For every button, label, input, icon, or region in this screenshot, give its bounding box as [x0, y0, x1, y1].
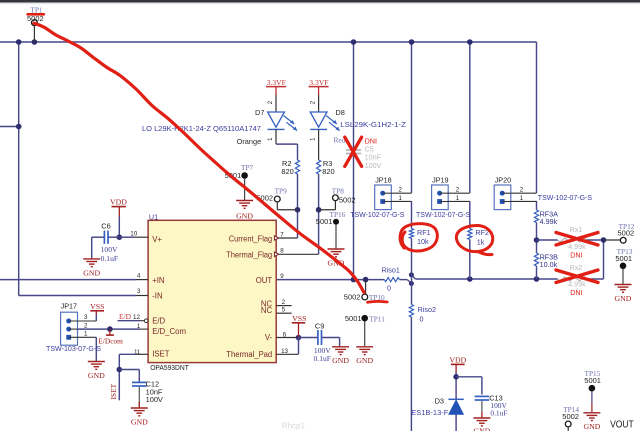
- annotation red X over C5: [345, 137, 362, 166]
- resistor R3 820: [317, 160, 321, 174]
- svg-text:Current_Flag: Current_Flag: [229, 234, 273, 243]
- test point TP7 5001 grounded: [241, 172, 248, 179]
- wire JP17 pin2 to U1 E/D_Com pin1: [69, 328, 78, 330]
- wire stub left edge y=126.5: [0, 126, 19, 128]
- wire JP18 pin1 down through RF1 Riso2 to bottom edge: [411, 201, 413, 228]
- op-amp U1 OPA593DNT body: [148, 220, 276, 362]
- svg-text:100V: 100V: [146, 395, 163, 404]
- resistor Rx1 DNI grey with leads: [537, 239, 558, 241]
- node dot RF2 bottom: [467, 276, 473, 282]
- wire to C12: [119, 369, 139, 371]
- svg-text:E/D_Com: E/D_Com: [152, 327, 186, 336]
- svg-text:5002: 5002: [344, 293, 361, 302]
- wire R2 to Current_Flag pin7: [297, 174, 299, 238]
- wire JP17 pin3 to VSS: [69, 320, 97, 322]
- resistor Rx2 DNI grey with leads: [558, 277, 587, 281]
- svg-text:TSW-103-07-G-S: TSW-103-07-G-S: [46, 344, 101, 353]
- svg-text:2: 2: [399, 187, 403, 194]
- U1 flag output arrows: [274, 236, 278, 240]
- svg-text:ISET: ISET: [152, 350, 170, 359]
- svg-text:VDD: VDD: [449, 356, 466, 365]
- connector JP17 TSW-103-07-G-S: [61, 312, 78, 345]
- svg-text:2: 2: [282, 299, 286, 306]
- capacitor C12 10nF 100V: [132, 381, 147, 383]
- svg-text:C9: C9: [315, 321, 324, 330]
- power VSS at V-: [298, 323, 300, 337]
- node dot RF3 bottom: [534, 276, 540, 282]
- svg-text:1: 1: [84, 331, 88, 338]
- svg-text:5001: 5001: [345, 314, 362, 323]
- svg-text:100V: 100V: [365, 161, 382, 170]
- svg-text:10: 10: [130, 230, 137, 237]
- svg-text:0.1uF: 0.1uF: [314, 354, 332, 363]
- capacitor C6 0.1uF 100V: [92, 236, 105, 238]
- test point TP8 5002: [333, 195, 339, 201]
- node double junction dots at x411: [409, 272, 414, 277]
- svg-text:0: 0: [420, 314, 424, 323]
- LED D7: [275, 95, 277, 112]
- svg-text:RF1: RF1: [417, 228, 431, 237]
- annotation red circle around RF1: [400, 224, 437, 251]
- test point TP13 5001 with ground: [620, 263, 627, 270]
- svg-text:7: 7: [280, 231, 284, 238]
- svg-text:Riso1: Riso1: [382, 265, 400, 274]
- wire OUT net right portion: [415, 278, 557, 280]
- svg-text:12: 12: [133, 314, 140, 321]
- svg-text:5001: 5001: [615, 254, 632, 263]
- svg-text:8: 8: [280, 248, 284, 255]
- wire JP18 column vertical from top net: [411, 42, 413, 193]
- svg-text:-IN: -IN: [152, 292, 162, 301]
- svg-text:Rx1: Rx1: [570, 225, 583, 234]
- svg-text:TSW-102-07-G-S: TSW-102-07-G-S: [538, 193, 592, 202]
- wire top net horizontal: [0, 41, 537, 43]
- svg-text:Thermal_Flag: Thermal_Flag: [226, 251, 272, 260]
- svg-text:JP20: JP20: [495, 176, 511, 185]
- wire JP19 column vertical from top net: [469, 42, 471, 193]
- wire JP17 pin1 to GND: [69, 336, 97, 338]
- wire VDD to C13: [456, 376, 482, 378]
- svg-text:TP8: TP8: [332, 186, 345, 195]
- connector JP18 TSW-102-07-G-S: [375, 185, 392, 210]
- resistor RF1 10k: [409, 229, 413, 239]
- node junction dots on top net: [16, 39, 22, 45]
- svg-text:ISET: ISET: [109, 383, 118, 399]
- annotation red circle around RF2: [456, 225, 492, 254]
- annotation red X over Rx2: [556, 270, 598, 283]
- node junction dot x18 y126.5: [16, 124, 22, 130]
- svg-text:1k: 1k: [477, 237, 485, 246]
- svg-text:VDD: VDD: [110, 198, 127, 207]
- wire RF1 to OUT net: [411, 238, 413, 304]
- svg-text:TP7: TP7: [241, 163, 254, 172]
- resistor RF3A 4.99k: [534, 210, 538, 223]
- capacitor C13 0.1uF 100V: [475, 395, 490, 397]
- svg-text:GND: GND: [236, 212, 253, 221]
- connector JP20 TSW-102-07-G-S: [494, 185, 511, 210]
- svg-text:2: 2: [84, 322, 88, 329]
- svg-text:JP19: JP19: [432, 176, 448, 185]
- wire -IN horizontal: [19, 295, 136, 297]
- annotation red freehand curve TP1 to TP10: [34, 23, 364, 292]
- svg-text:820: 820: [281, 167, 293, 176]
- svg-text:TSW-102-07-G-S: TSW-102-07-G-S: [350, 210, 404, 219]
- svg-text:5002: 5002: [339, 196, 356, 205]
- svg-text:4.99k: 4.99k: [540, 217, 558, 226]
- resistor Riso2 zigzag: [409, 305, 413, 318]
- svg-text:E/D: E/D: [119, 312, 132, 321]
- svg-text:E/Dcom: E/Dcom: [98, 336, 123, 345]
- svg-text:VOUT: VOUT: [610, 420, 634, 431]
- svg-text:GND: GND: [473, 427, 490, 432]
- svg-text:Orange: Orange: [237, 137, 262, 146]
- svg-text:5002: 5002: [562, 412, 579, 421]
- svg-text:GND: GND: [88, 371, 105, 380]
- node dot E/Dcom tap: [107, 326, 113, 332]
- svg-text:TSW-102-07-G-S: TSW-102-07-G-S: [416, 210, 470, 219]
- svg-text:2: 2: [456, 187, 460, 194]
- svg-text:Riso2: Riso2: [418, 305, 436, 314]
- svg-text:9: 9: [280, 273, 284, 280]
- svg-text:GND: GND: [332, 356, 349, 365]
- capacitor C5 DNI grey plates: [346, 149, 361, 151]
- annotation red underline TP10: [368, 300, 388, 304]
- svg-text:3: 3: [137, 288, 141, 295]
- svg-text:E/D: E/D: [152, 317, 165, 326]
- wire VDD junction to D3: [455, 372, 457, 399]
- svg-text:Thermal_Pad: Thermal_Pad: [226, 350, 272, 359]
- svg-text:GND: GND: [131, 418, 148, 427]
- capacitor C9 0.1uF 100V: [299, 337, 318, 339]
- svg-text:5: 5: [282, 307, 286, 314]
- svg-text:GND: GND: [583, 422, 600, 431]
- diode D3 ES1B-13-F: [448, 398, 463, 400]
- wire top net right vertical to JP20 pin 2: [536, 42, 538, 193]
- svg-text:LO L29K-H2K1-24-Z Q65110A1747: LO L29K-H2K1-24-Z Q65110A1747: [142, 124, 261, 133]
- svg-text:ES1B-13-F: ES1B-13-F: [411, 408, 449, 417]
- wire OUT net from U1 pin9 to Riso1: [276, 279, 384, 281]
- svg-text:D8: D8: [335, 108, 344, 117]
- svg-text:JP18: JP18: [375, 176, 391, 185]
- svg-text:OUT: OUT: [256, 276, 273, 285]
- resistor RF3B 10.0k: [534, 253, 538, 266]
- resistor RF2 1k: [468, 229, 472, 240]
- svg-text:10nF: 10nF: [365, 152, 382, 161]
- power E/Dcom symbol: [109, 329, 111, 335]
- svg-text:5001: 5001: [584, 376, 601, 385]
- annotation red underline TP1: [28, 13, 44, 16]
- wire Riso1 to double junction: [399, 279, 407, 281]
- svg-text:10k: 10k: [417, 237, 429, 246]
- svg-text:C6: C6: [101, 222, 110, 231]
- test point TP10 5002 on OUT net: [365, 280, 367, 294]
- test point TP14 5002: [565, 421, 571, 427]
- connector JP19 TSW-102-07-G-S: [432, 185, 449, 210]
- svg-text:D3: D3: [435, 397, 444, 406]
- wire JP19 pin1 down through RF2 to OUT net: [469, 201, 471, 228]
- wire U1 pin6 V- to VSS and C9: [276, 337, 298, 339]
- test point TP1 5002 top left: [32, 20, 38, 26]
- wire +IN horizontal from left edge: [0, 279, 136, 281]
- svg-text:GND: GND: [356, 356, 373, 365]
- svg-text:TP9: TP9: [275, 186, 288, 195]
- wire JP20 pin2 to column: [511, 192, 537, 194]
- wire R3 to Thermal_Flag pin8: [318, 174, 320, 254]
- svg-text:4: 4: [137, 273, 141, 280]
- test point TP12 5002: [604, 239, 621, 241]
- annotation red X over Rx1: [556, 233, 598, 246]
- svg-text:VSS: VSS: [292, 314, 306, 323]
- wire D7 cathode to R2: [275, 129, 277, 144]
- wire pin7 stub: [276, 237, 297, 239]
- wire VDD to pin10 junction: [118, 217, 120, 238]
- test point TP15 5001 grounded: [589, 385, 596, 392]
- svg-text:Rx2: Rx2: [570, 263, 583, 272]
- svg-text:Rhcp1: Rhcp1: [282, 422, 306, 431]
- svg-text:U1: U1: [149, 212, 158, 221]
- resistor R2 820: [295, 160, 299, 174]
- node dot TP10 tap: [363, 277, 369, 283]
- node dot C5 branch bottom: [351, 277, 357, 283]
- svg-text:VSS: VSS: [90, 302, 104, 311]
- svg-text:+IN: +IN: [152, 276, 164, 285]
- svg-text:NC: NC: [261, 306, 273, 315]
- resistor Riso1 zigzag: [384, 278, 399, 282]
- svg-text:TP11: TP11: [369, 315, 385, 324]
- svg-text:GND: GND: [615, 294, 632, 303]
- wire pin8 stub: [276, 253, 318, 255]
- svg-text:2: 2: [520, 187, 524, 194]
- svg-text:5001: 5001: [316, 217, 333, 226]
- wire C9 right to GND: [339, 338, 341, 347]
- wire JP20 pin1 down through RF3A RF3B: [536, 201, 538, 210]
- wire Rx1-Rx2 right vertical: [603, 240, 605, 279]
- svg-text:JP17: JP17: [61, 301, 77, 310]
- svg-text:100V: 100V: [101, 245, 118, 254]
- svg-text:V+: V+: [152, 235, 162, 244]
- svg-text:0.1uF: 0.1uF: [490, 409, 507, 418]
- wire U1 pin11 ISET down: [119, 353, 136, 355]
- svg-text:V-: V-: [265, 333, 273, 342]
- svg-text:10.0k: 10.0k: [540, 260, 558, 269]
- wire left vertical from top net to -IN: [18, 42, 20, 296]
- svg-text:DNI: DNI: [570, 288, 582, 297]
- svg-text:OPA593DNT: OPA593DNT: [150, 363, 189, 372]
- svg-text:GND: GND: [83, 268, 100, 277]
- svg-text:DNI: DNI: [570, 250, 582, 259]
- svg-text:820: 820: [322, 167, 334, 176]
- svg-text:LSL29K-G1H2-1-Z: LSL29K-G1H2-1-Z: [340, 120, 406, 129]
- node dot RF3A-RF3B junction / Rx1 tap: [534, 237, 540, 243]
- wire JP18 pin2 to column: [391, 192, 411, 194]
- node dot ISET junction: [117, 367, 123, 373]
- test point TP9 5002: [274, 196, 280, 202]
- svg-text:3: 3: [84, 314, 88, 321]
- test point TP16 5001 grounded: [333, 219, 339, 225]
- LED D8: [318, 95, 320, 112]
- test point TP11 5001 grounded: [361, 315, 368, 322]
- wire Thermal_Pad pin13 up to V-: [276, 353, 298, 355]
- node dot TP8 junction: [316, 207, 322, 213]
- wire JP19 pin2 to column: [448, 192, 470, 194]
- U1 left pin stubs: [134, 236, 148, 238]
- U1 pin 12 E/D with bubble: [118, 320, 141, 322]
- wire Riso2 to bottom edge: [410, 317, 412, 431]
- svg-text:D7: D7: [255, 108, 264, 117]
- node dot TP9 junction: [295, 207, 301, 213]
- U1 NC pin stubs: [276, 305, 291, 307]
- svg-text:0.1uF: 0.1uF: [101, 254, 119, 263]
- wire D8 cathode to R3: [318, 129, 320, 160]
- top window border bar: [0, 0, 640, 3]
- svg-text:0: 0: [387, 283, 391, 292]
- svg-text:5002: 5002: [618, 229, 635, 238]
- wire C5 branch vertical from top net to OUT net: [353, 42, 355, 279]
- wire C6 left to GND: [91, 237, 93, 258]
